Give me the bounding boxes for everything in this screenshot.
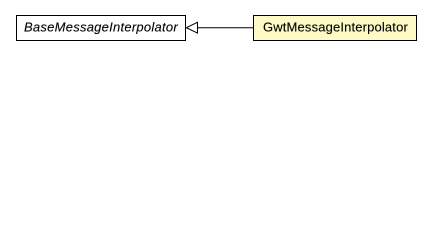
- class box GwtMessageInterpolator (highlighted yellow): [253, 15, 417, 41]
- wire: [197, 27, 254, 29]
- hollow triangle arrowhead: [186, 22, 197, 33]
- inheritance arrow: wire + hollow triangle: [0, 0, 433, 59]
- class box BaseMessageInterpolator (abstract, italic): [16, 15, 186, 41]
